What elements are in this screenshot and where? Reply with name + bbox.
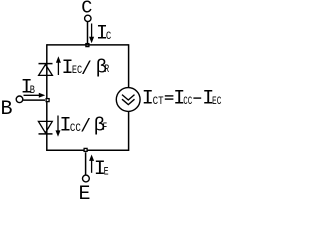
current arrow IEC — [56, 56, 61, 75]
svg-text:E: E — [104, 167, 109, 179]
svg-text:R: R — [104, 64, 109, 76]
current arrow IB — [24, 93, 46, 98]
current arrow IC — [89, 24, 94, 44]
svg-text:CC: CC — [183, 96, 192, 108]
svg-text:/: / — [81, 60, 92, 80]
svg-text:F: F — [103, 122, 108, 134]
svg-text:C: C — [106, 31, 112, 43]
svg-text:/: / — [80, 118, 91, 138]
wire right lower — [128, 112, 130, 151]
wire B terminal to box — [23, 99, 45, 101]
diode D1 (B-C junction, pointing up) — [39, 64, 53, 76]
node junction E — [84, 148, 87, 151]
svg-text:CT: CT — [153, 96, 164, 108]
label ICC/bF — [60, 115, 108, 138]
label ICT=ICC-IEC — [142, 87, 222, 110]
current source ICT — [116, 88, 140, 112]
node junction C — [86, 44, 89, 47]
wire E terminal to box — [85, 152, 87, 175]
wire bottom — [47, 149, 129, 151]
wire C terminal to box — [87, 22, 89, 44]
label IC — [96, 23, 112, 46]
label IB — [21, 76, 36, 99]
current arrow ICC — [56, 116, 61, 137]
diode D2 (B-E junction, pointing down) — [38, 121, 52, 133]
wire right upper — [128, 44, 130, 87]
wire top — [47, 44, 129, 46]
terminal E circle — [83, 175, 90, 182]
wire left — [46, 44, 48, 151]
svg-text:E: E — [79, 183, 91, 201]
svg-text:B: B — [30, 85, 36, 97]
label IEC/bR — [62, 57, 110, 81]
current arrow IE — [89, 155, 94, 173]
terminal C circle — [85, 15, 91, 21]
svg-text:B: B — [1, 98, 13, 121]
label IE — [94, 158, 109, 181]
terminal B circle — [16, 96, 23, 103]
svg-text:EC: EC — [212, 96, 222, 108]
node junction B — [46, 99, 49, 102]
